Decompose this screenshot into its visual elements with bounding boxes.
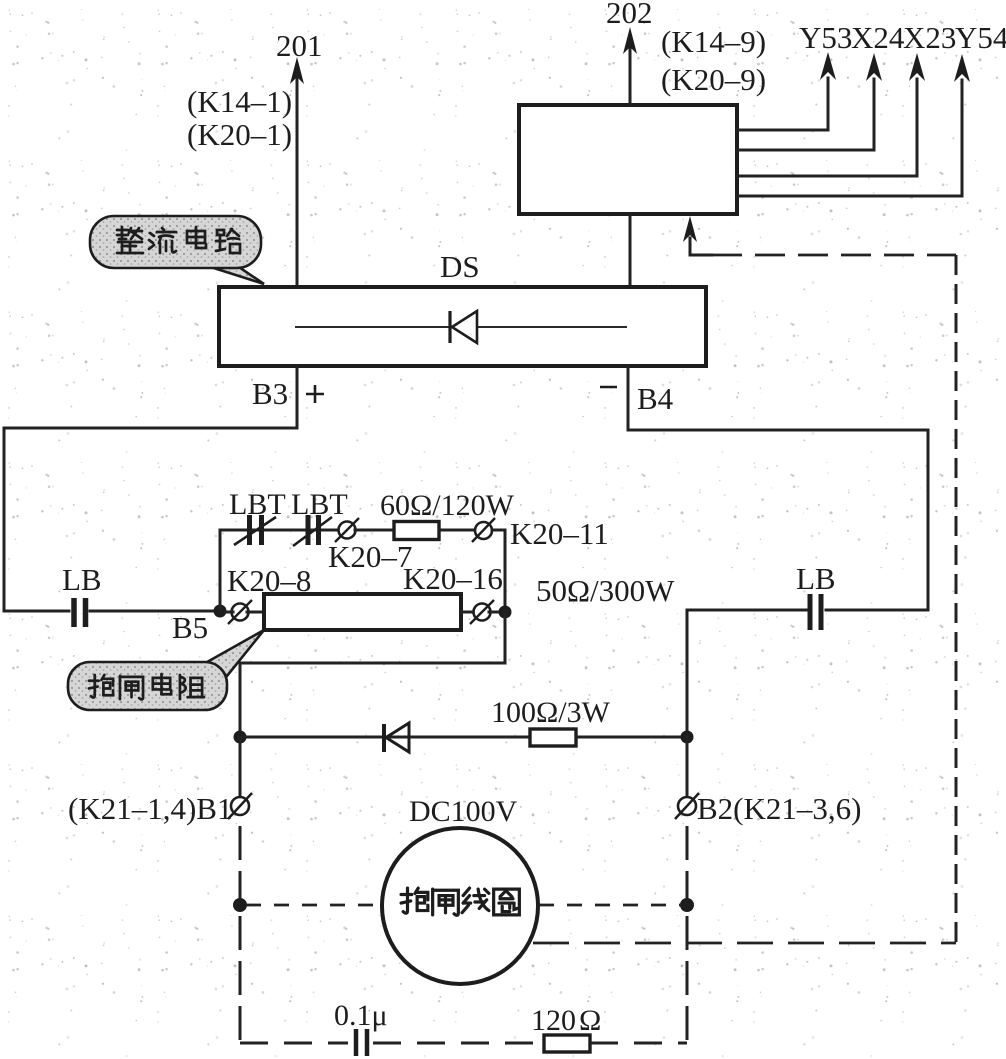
node Y53 label	[799, 20, 852, 55]
svg-text:DC100V: DC100V	[409, 795, 518, 828]
svg-text:LBT: LBT	[291, 488, 348, 521]
dashed wire B2 down	[686, 826, 689, 1043]
node Y54 label	[955, 20, 1006, 55]
svg-text:50Ω/300W: 50Ω/300W	[536, 573, 675, 608]
LBT label 1	[229, 488, 286, 521]
wire dot to K20-8	[226, 611, 233, 614]
svg-text:B2(K21–3,6): B2(K21–3,6)	[697, 791, 861, 826]
svg-text:X24: X24	[851, 20, 905, 55]
svg-text:K20–16: K20–16	[403, 561, 503, 596]
wire 202 arrow	[623, 27, 637, 105]
dashed wire coil left	[246, 904, 381, 907]
wire LB to B5	[90, 610, 219, 613]
terminal K20-11 circle	[472, 518, 495, 542]
capacitor LB right	[810, 594, 821, 630]
svg-text:(K21–1,4)B1: (K21–1,4)B1	[68, 791, 232, 826]
node X24 label	[851, 20, 905, 55]
feedback arrow into box	[683, 216, 712, 255]
LBT label 2	[291, 488, 348, 521]
coil text 抱闸线圈	[401, 888, 519, 915]
junction dot B1 row	[234, 731, 247, 744]
svg-text:LB: LB	[62, 562, 102, 597]
svg-text:K20–11: K20–11	[510, 516, 609, 551]
junction dot coil left	[233, 898, 247, 912]
dashed wire 120ohm to B2 leg	[590, 1042, 687, 1045]
wire lower loop of brake resistor	[240, 612, 505, 737]
resistor 100ohm/3W	[530, 729, 576, 746]
node 201 label	[276, 28, 323, 63]
wire 201 line	[290, 57, 304, 287]
callout text 整流电路	[117, 227, 240, 253]
svg-text:Y54: Y54	[955, 20, 1006, 55]
dashed wire coil to feedback	[533, 942, 956, 945]
terminal B2 circle	[675, 793, 699, 819]
resistor 50ohm/300W	[264, 594, 461, 630]
wire resistor to K20-11	[439, 529, 477, 532]
callout text 抱闸电阻	[89, 674, 204, 699]
svg-text:(K14–9): (K14–9)	[661, 24, 766, 59]
wire to X23	[737, 53, 925, 176]
junction dot B2 row	[681, 731, 694, 744]
node B3 label	[252, 376, 288, 411]
wire B1 row to diode	[240, 736, 530, 739]
rectifier DS box	[219, 287, 706, 366]
node X23 label	[903, 20, 956, 55]
wire resistor to B2 junction	[576, 736, 687, 739]
svg-text:0.1μ: 0.1μ	[334, 999, 388, 1032]
terminal K20-7 circle	[335, 518, 359, 542]
terminal K20-8 circle	[228, 600, 252, 624]
svg-text:(K20–1): (K20–1)	[187, 117, 292, 152]
svg-text:B4: B4	[637, 381, 674, 416]
top control box	[519, 105, 737, 214]
LB right label	[796, 561, 836, 596]
DC100V label	[409, 795, 518, 828]
node (K14-9) label	[661, 24, 766, 59]
K20-7 label	[328, 539, 412, 574]
node (K14-1) label	[187, 84, 292, 119]
100ohm/3W label	[491, 696, 611, 729]
svg-text:(K14–1): (K14–1)	[187, 84, 292, 119]
svg-text:LB: LB	[796, 561, 836, 596]
svg-text:202: 202	[606, 0, 653, 30]
terminal B1 circle	[228, 793, 252, 819]
120ohm label	[531, 1004, 601, 1037]
junction dot right of 50ohm	[499, 606, 512, 619]
wire resistor to K20-16	[461, 611, 475, 614]
svg-text:201: 201	[276, 28, 323, 63]
wire B5 up to LBT row	[220, 530, 339, 611]
K20-16 label	[403, 561, 503, 596]
wire B3 down-left	[4, 366, 297, 611]
dashed feedback wire vertical	[955, 255, 958, 943]
contact LBT 2	[293, 515, 332, 546]
node (K20-9) label	[661, 62, 766, 97]
wire dot to B1	[239, 737, 242, 797]
callout bubble 抱闸电阻 brake resistor	[68, 630, 264, 710]
callout bubble 整流电路 rectifier circuit	[90, 216, 264, 284]
dashed wire coil right	[539, 904, 681, 907]
wire to Y54	[737, 54, 970, 196]
0.1u label	[334, 999, 388, 1032]
svg-text:B5: B5	[172, 610, 208, 645]
wire LB right to corner	[687, 610, 806, 737]
svg-text:60Ω/120W: 60Ω/120W	[380, 489, 515, 522]
wire dot to B2	[686, 737, 689, 797]
node B5 junction dot	[214, 605, 227, 618]
node B4 label	[637, 381, 674, 416]
terminal K20-16 circle	[470, 600, 494, 624]
resistor 120ohm	[544, 1035, 590, 1052]
node B5 label	[172, 610, 208, 645]
resistor 60ohm/120W	[394, 522, 439, 540]
wire to X24	[737, 53, 882, 150]
svg-text:100Ω/3W: 100Ω/3W	[491, 696, 611, 729]
diode D1	[384, 723, 409, 752]
junction dot coil right	[680, 898, 694, 912]
dashed wire cap to 120ohm	[373, 1042, 544, 1045]
svg-text:120: 120	[531, 1004, 576, 1037]
wire K20-16 to junction	[489, 611, 505, 614]
LB left label	[62, 562, 102, 597]
capacitor LB left	[74, 598, 86, 627]
K20-8 label	[227, 563, 311, 598]
minus sign	[600, 386, 617, 389]
node 202 label	[606, 0, 653, 30]
dashed feedback wire horizontal	[712, 254, 956, 257]
contact LBT 1	[234, 515, 276, 545]
dashed wire bottom left	[240, 1042, 348, 1045]
svg-text:Ω: Ω	[579, 1004, 601, 1037]
svg-text:X23: X23	[903, 20, 956, 55]
60ohm/120W label	[380, 489, 515, 522]
svg-text:(K20–9): (K20–9)	[661, 62, 766, 97]
dashed wire B1 down	[239, 826, 242, 1043]
svg-text:K20–7: K20–7	[328, 539, 412, 574]
wire K20-11 down to junction	[492, 530, 505, 612]
node (K20-1) label	[187, 117, 292, 152]
svg-text:B3: B3	[252, 376, 288, 411]
wire to Y53	[737, 52, 836, 130]
(K21-1,4)B1 label	[68, 791, 232, 826]
diode inside DS	[295, 311, 627, 343]
DS label	[440, 249, 480, 284]
50ohm/300W label	[536, 573, 675, 608]
wire to resistor 60	[355, 529, 394, 532]
brake coil circle	[382, 828, 538, 984]
svg-text:DS: DS	[440, 249, 480, 284]
K20-11 label	[510, 516, 609, 551]
wire K20-8 to resistor 50	[247, 611, 264, 614]
capacitor 0.1u	[356, 1029, 367, 1056]
wire box to DS	[629, 214, 632, 287]
plus sign	[306, 385, 324, 403]
B2(K21-3,6) label	[697, 791, 861, 826]
svg-text:Y53: Y53	[799, 20, 852, 55]
svg-text:LBT: LBT	[229, 488, 286, 521]
wire B4 down-right	[628, 366, 928, 610]
